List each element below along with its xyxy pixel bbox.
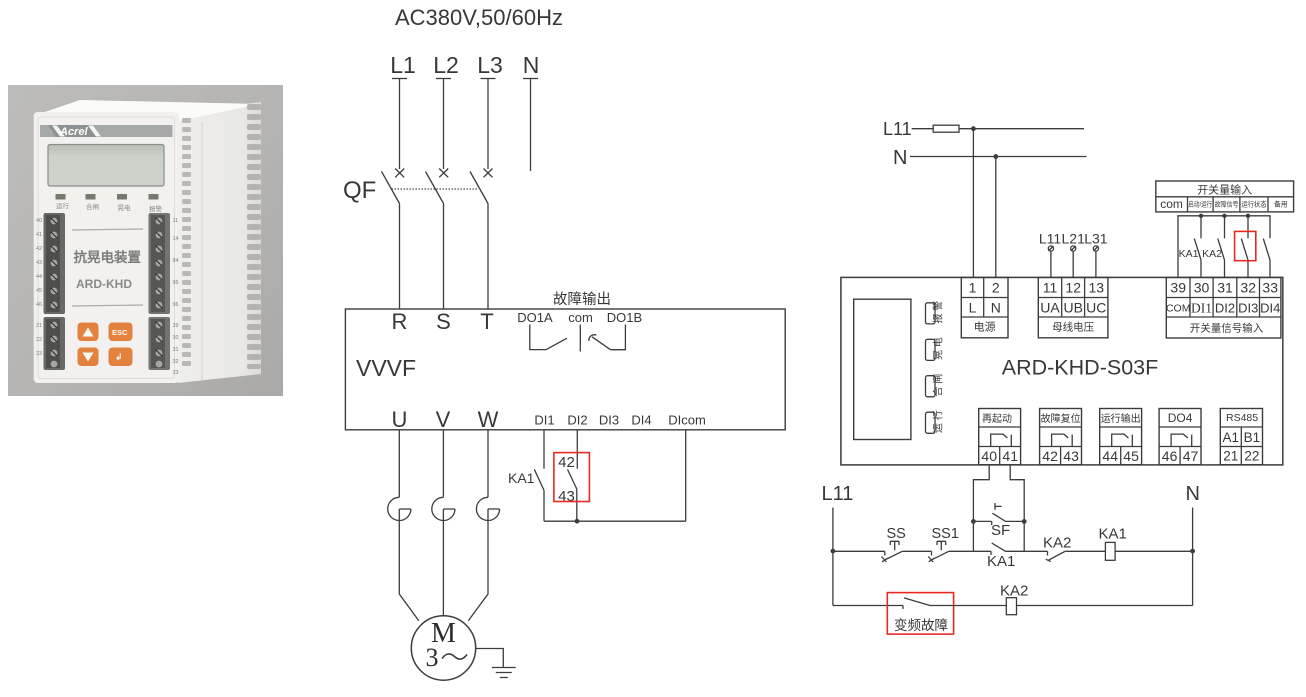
- terminal block right upper: [149, 213, 171, 314]
- wire to terminal 1: [972, 129, 974, 278]
- wire W phase upper: [487, 430, 489, 498]
- svg-text:QF: QF: [343, 177, 376, 204]
- svg-text:12: 12: [1065, 280, 1081, 296]
- fuse FU1: [933, 125, 959, 132]
- svg-text:DI2: DI2: [1215, 301, 1235, 316]
- svg-text:SF: SF: [991, 522, 1010, 539]
- svg-text:22: 22: [36, 337, 42, 343]
- wire rung2 segment b: [930, 605, 1006, 607]
- junction dot L11: [971, 126, 976, 131]
- svg-text:KA2: KA2: [1000, 583, 1028, 600]
- LED 报警: [926, 301, 945, 324]
- svg-text:21: 21: [1223, 449, 1238, 464]
- svg-text:com: com: [568, 310, 593, 325]
- contact 42-43: [568, 469, 577, 521]
- svg-text:N: N: [893, 147, 907, 169]
- main device box ARD-KHD-S03F: [841, 277, 1283, 465]
- side face seam: [201, 122, 203, 380]
- wire rung1 segment b: [902, 550, 931, 552]
- contact 备用 input DI4: [1263, 239, 1270, 278]
- svg-text:33: 33: [1262, 280, 1278, 296]
- LCD screen: [48, 145, 164, 187]
- svg-text:晃 电: 晃 电: [932, 337, 945, 360]
- svg-text:41: 41: [1002, 448, 1018, 464]
- terminal side markings left: [36, 218, 42, 357]
- highlight box 变频故障: [887, 593, 953, 635]
- svg-text:运行: 运行: [56, 201, 70, 210]
- LED 运行: [926, 410, 945, 433]
- svg-text:95: 95: [173, 280, 179, 286]
- button ESC: [109, 323, 133, 342]
- svg-text:ESC: ESC: [112, 328, 128, 337]
- terminal tick N: [523, 78, 538, 80]
- fuse link L31: [1084, 231, 1108, 278]
- svg-text:故障输出: 故障输出: [553, 290, 611, 308]
- terminal group 电源: [961, 278, 1008, 338]
- terminal tick L3: [481, 78, 496, 80]
- relay contact DO1B: [589, 325, 626, 350]
- svg-text:L11: L11: [883, 119, 912, 139]
- svg-text:32: 32: [1240, 280, 1256, 296]
- svg-text:43: 43: [36, 260, 42, 266]
- side vents front column: [182, 118, 191, 366]
- svg-text:30: 30: [173, 335, 179, 341]
- wire rung1 segment a: [833, 550, 885, 552]
- contact KA1 input DI1: [1179, 216, 1201, 278]
- svg-text:运行输出: 运行输出: [1101, 412, 1141, 425]
- VVVF inverter box U1: [345, 309, 785, 430]
- svg-text:W: W: [478, 407, 499, 432]
- svg-text:44: 44: [1102, 448, 1118, 464]
- svg-text:39: 39: [173, 323, 179, 329]
- svg-text:↲: ↲: [115, 352, 123, 362]
- wire L3: [487, 79, 489, 170]
- svg-text:开关量输入: 开关量输入: [1197, 183, 1252, 197]
- button down: [78, 348, 99, 367]
- svg-text:KA2: KA2: [1043, 535, 1071, 552]
- current transformer CT-U: [388, 497, 411, 520]
- current transformer CT-W: [476, 497, 499, 520]
- svg-text:合 闸: 合 闸: [932, 374, 945, 397]
- svg-text:11: 11: [173, 218, 179, 224]
- svg-text:46: 46: [36, 302, 42, 308]
- wire from terminal 40: [973, 465, 989, 522]
- svg-text:COM: COM: [1166, 303, 1191, 315]
- relay coil KA1: [1099, 526, 1127, 561]
- svg-text:N: N: [1186, 483, 1200, 505]
- wire rung2 segment a: [833, 605, 903, 607]
- wire rung2 segment c: [1017, 605, 1193, 607]
- svg-text:DI4: DI4: [1260, 301, 1280, 316]
- breaker QF linkage: [392, 188, 479, 190]
- device front face: [34, 112, 180, 383]
- front face inner edge: [38, 117, 175, 379]
- wire U phase upper: [398, 430, 400, 498]
- svg-text:L1: L1: [390, 52, 416, 78]
- svg-text:DI3: DI3: [1238, 301, 1258, 316]
- svg-text:L31: L31: [1084, 231, 1108, 247]
- terminal block right lower: [149, 317, 171, 370]
- terminal side markings right: [173, 218, 179, 376]
- svg-text:30: 30: [1194, 280, 1210, 296]
- wire L11 leg: [832, 508, 834, 606]
- terminal block left lower: [44, 317, 66, 370]
- terminal tick L1: [392, 78, 407, 80]
- wire SF leg right: [1023, 521, 1025, 551]
- svg-text:N: N: [991, 300, 1001, 316]
- wire S: [443, 204, 445, 310]
- svg-text:DIcom: DIcom: [668, 413, 706, 428]
- svg-text:33: 33: [173, 370, 179, 376]
- wire rung1 segment c: [949, 550, 991, 552]
- LED 合闸: [86, 194, 100, 211]
- device LCD window: [854, 299, 911, 439]
- output group 再起动: [979, 409, 1021, 465]
- svg-text:电源: 电源: [974, 320, 996, 334]
- svg-text:开关量信号输入: 开关量信号输入: [1190, 322, 1264, 335]
- wire V phase lower: [442, 509, 444, 616]
- product photo background: [8, 85, 283, 396]
- svg-text:DO4: DO4: [1168, 411, 1193, 425]
- svg-text:14: 14: [173, 236, 179, 242]
- device right side face: [178, 102, 261, 383]
- svg-text:备用: 备用: [1274, 200, 1288, 209]
- wire rung1 segment e: [1065, 550, 1106, 552]
- svg-text:母线电压: 母线电压: [1052, 321, 1094, 334]
- svg-text:42: 42: [558, 454, 575, 471]
- svg-text:41: 41: [36, 232, 42, 238]
- svg-text:44: 44: [36, 274, 42, 280]
- svg-text:启动/运行: 启动/运行: [1188, 200, 1212, 209]
- svg-text:39: 39: [1170, 280, 1186, 296]
- svg-text:再起动: 再起动: [982, 413, 1012, 425]
- relay contact KA1 rung1: [987, 543, 1015, 570]
- switch input legend box 开关量输入: [1156, 181, 1294, 212]
- svg-text:23: 23: [36, 351, 42, 357]
- svg-text:DI4: DI4: [631, 413, 651, 428]
- svg-text:40: 40: [36, 218, 42, 224]
- wire rung1 segment d: [1006, 550, 1048, 552]
- highlight box 42-43: [554, 453, 590, 502]
- svg-text:RS485: RS485: [1226, 412, 1258, 424]
- wire R: [399, 204, 401, 310]
- svg-text:45: 45: [36, 288, 42, 294]
- svg-text:KA1: KA1: [1099, 526, 1127, 543]
- wire L11: [912, 128, 1084, 130]
- svg-text:AC380V,50/60Hz: AC380V,50/60Hz: [395, 5, 563, 30]
- com bus: [1178, 216, 1270, 278]
- svg-text:N: N: [523, 52, 540, 78]
- terminal block left upper: [44, 213, 66, 314]
- svg-text:DO1B: DO1B: [607, 310, 642, 325]
- svg-text:DI2: DI2: [567, 413, 587, 428]
- svg-text:运行状态: 运行状态: [1242, 200, 1267, 209]
- svg-text:故障复位: 故障复位: [1041, 412, 1081, 425]
- svg-text:故障信号: 故障信号: [1215, 200, 1239, 209]
- svg-text:32: 32: [173, 359, 179, 365]
- LED 报警: [149, 194, 163, 213]
- svg-text:报警: 报警: [149, 204, 163, 213]
- svg-text:40: 40: [981, 448, 997, 464]
- svg-text:22: 22: [1244, 449, 1259, 464]
- motor M: [411, 616, 475, 680]
- svg-text:Acrel: Acrel: [59, 126, 88, 138]
- breaker QF pole 1: [382, 169, 405, 204]
- svg-text:3: 3: [426, 643, 439, 672]
- wire N leg: [1192, 508, 1194, 606]
- svg-text:com: com: [1160, 197, 1183, 211]
- ground symbol: [492, 668, 516, 678]
- svg-text:DI3: DI3: [599, 413, 619, 428]
- contact KA2 input DI2: [1202, 216, 1224, 278]
- wire DI2: [576, 430, 578, 469]
- svg-text:SS: SS: [887, 526, 906, 542]
- Acrel logo band: [40, 125, 173, 138]
- svg-text:T: T: [480, 309, 493, 334]
- svg-text:2: 2: [992, 280, 1000, 296]
- svg-text:合闸: 合闸: [86, 202, 99, 211]
- svg-text:A1: A1: [1223, 430, 1240, 445]
- highlight box DI3 contact: [1235, 231, 1256, 260]
- relay contact DO1A: [530, 325, 567, 350]
- button up: [78, 323, 99, 342]
- wire W phase lower: [468, 509, 488, 621]
- svg-text:47: 47: [1183, 448, 1199, 464]
- junction dot N: [993, 154, 998, 159]
- svg-text:KA1: KA1: [1179, 248, 1199, 260]
- wire DI1: [543, 430, 545, 469]
- svg-text:L11: L11: [1039, 231, 1062, 247]
- wire U phase lower: [399, 509, 419, 621]
- button enter: [109, 348, 133, 367]
- contact 变频故障: [894, 598, 948, 633]
- svg-text:KA1: KA1: [987, 553, 1015, 570]
- relay contact KA2 rung1: [1043, 535, 1071, 562]
- current transformer CT-V: [432, 497, 455, 520]
- wire to terminal 2: [995, 157, 997, 278]
- LED 晃电: [117, 194, 131, 212]
- svg-text:UB: UB: [1063, 300, 1082, 316]
- junction dot bus DI3: [1246, 214, 1250, 218]
- svg-text:1: 1: [969, 280, 977, 296]
- svg-text:94: 94: [173, 258, 179, 264]
- terminal group 开关量信号输入: [1166, 278, 1281, 339]
- svg-text:U: U: [392, 407, 408, 432]
- svg-text:运 行: 运 行: [932, 410, 945, 433]
- wire N: [910, 156, 1087, 158]
- svg-text:42: 42: [1042, 448, 1058, 464]
- relay coil KA2: [1000, 583, 1028, 615]
- LED 晃电: [926, 337, 945, 360]
- svg-text:L2: L2: [433, 52, 459, 78]
- svg-text:B1: B1: [1244, 430, 1261, 445]
- output group 故障复位: [1040, 409, 1082, 465]
- pushbutton SS1: [928, 526, 959, 562]
- svg-text:L11: L11: [822, 483, 854, 505]
- svg-text:抗晃电装置: 抗晃电装置: [74, 249, 142, 265]
- wire SF leg left: [972, 521, 974, 551]
- svg-text:43: 43: [1063, 448, 1079, 464]
- LED 运行: [56, 194, 70, 210]
- svg-text:L21: L21: [1062, 231, 1086, 247]
- wire L1: [399, 79, 401, 170]
- junction dot bus DI2: [1222, 214, 1226, 218]
- svg-text:DI1: DI1: [534, 413, 554, 428]
- svg-text:晃电: 晃电: [118, 203, 132, 212]
- wire T: [487, 204, 489, 310]
- svg-text:42: 42: [36, 246, 42, 252]
- fuse link L21: [1062, 231, 1086, 278]
- output group DO4: [1159, 409, 1201, 465]
- divider line lower: [72, 305, 143, 306]
- svg-text:31: 31: [1217, 280, 1233, 296]
- wire from terminal 41: [1010, 465, 1024, 522]
- wire L2: [443, 79, 445, 170]
- svg-text:KA1: KA1: [508, 470, 535, 486]
- svg-text:DO1A: DO1A: [517, 310, 553, 325]
- pushbutton SF: [973, 503, 1024, 539]
- svg-text:96: 96: [173, 302, 179, 308]
- svg-text:46: 46: [1162, 448, 1178, 464]
- junction dot rung1 left: [831, 549, 836, 554]
- fuse link L11: [1039, 231, 1062, 278]
- svg-text:变频故障: 变频故障: [894, 618, 948, 633]
- svg-text:R: R: [392, 309, 408, 334]
- breaker QF pole 2: [426, 169, 449, 204]
- wire motor ground: [476, 649, 504, 668]
- svg-text:ARD-KHD-S03F: ARD-KHD-S03F: [1002, 356, 1159, 380]
- svg-text:S: S: [436, 309, 451, 334]
- svg-text:21: 21: [36, 323, 42, 329]
- svg-text:V: V: [436, 407, 451, 432]
- svg-text:SS1: SS1: [932, 526, 959, 542]
- wire V phase upper: [442, 430, 444, 498]
- svg-text:ARD-KHD: ARD-KHD: [76, 277, 132, 291]
- svg-text:DI1: DI1: [1191, 301, 1212, 316]
- svg-text:31: 31: [173, 347, 179, 353]
- svg-text:L: L: [969, 300, 977, 316]
- wire rung1 segment f: [1115, 550, 1193, 552]
- wire DIcom: [685, 430, 687, 521]
- junction dot rung1 right: [1190, 549, 1195, 554]
- svg-text:VVVF: VVVF: [356, 355, 416, 381]
- breaker QF pole 3: [470, 169, 493, 204]
- device top face: [33, 100, 259, 121]
- side vents rear column: [247, 104, 261, 369]
- LED 合闸: [926, 374, 945, 397]
- pushbutton SS: [882, 526, 906, 562]
- divider line upper: [72, 229, 143, 230]
- svg-text:UA: UA: [1040, 300, 1060, 316]
- junction dot bus DI1: [1199, 214, 1203, 218]
- contact 运行状态 input DI3: [1241, 216, 1248, 278]
- svg-text:报 警: 报 警: [932, 301, 945, 324]
- junction dot SF right: [1022, 519, 1027, 524]
- wire com: [579, 325, 581, 352]
- terminal group 母线电压: [1038, 278, 1108, 338]
- output group RS485: [1220, 409, 1262, 465]
- junction dot SF left: [971, 519, 976, 524]
- relay contact KA1: [534, 469, 544, 521]
- svg-text:13: 13: [1089, 280, 1105, 296]
- output group 运行输出: [1100, 409, 1142, 465]
- svg-text:L3: L3: [477, 52, 503, 78]
- junction dot DI2 bus: [575, 519, 580, 524]
- svg-text:45: 45: [1123, 448, 1139, 464]
- svg-text:UC: UC: [1086, 300, 1106, 316]
- terminal tick L2: [436, 78, 451, 80]
- bus DI common: [544, 520, 686, 522]
- svg-text:11: 11: [1043, 280, 1058, 296]
- wire N: [530, 79, 532, 172]
- svg-text:KA2: KA2: [1202, 248, 1222, 260]
